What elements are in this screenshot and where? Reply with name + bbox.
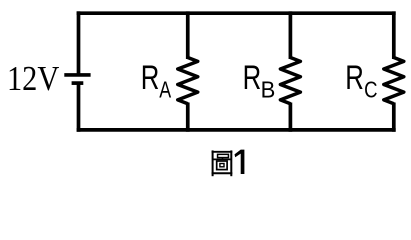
svg-text:12V: 12V: [7, 59, 59, 98]
resistor RC zigzag: [384, 58, 404, 104]
caption numeral 1: [235, 150, 245, 174]
battery V1 long plate (+): [64, 73, 90, 77]
wire bottom rail: [77, 128, 396, 132]
resistor RB zigzag: [280, 58, 300, 104]
label RB: [243, 59, 276, 103]
wire branch B upper: [289, 11, 293, 59]
battery V1 short plate (-): [72, 81, 84, 85]
wire top rail: [77, 11, 396, 15]
svg-text:A: A: [159, 77, 171, 103]
resistor RA zigzag: [178, 58, 198, 104]
svg-text:B: B: [261, 77, 276, 103]
svg-text:R: R: [243, 59, 262, 97]
label RC: [345, 59, 377, 103]
svg-text:R: R: [141, 59, 160, 97]
wire left lower (battery bottom lead): [77, 83, 81, 132]
wire right lower (from RC): [392, 103, 396, 132]
wire branch A upper: [186, 11, 190, 59]
wire branch B lower: [289, 103, 293, 132]
label RA: [141, 59, 172, 103]
wire branch A lower: [186, 103, 190, 132]
svg-text:C: C: [364, 77, 377, 103]
caption glyph 圖 (Figure) drawn as strokes: [212, 150, 233, 176]
wire right upper (to RC): [392, 11, 396, 59]
wire left upper (battery top lead): [77, 11, 81, 75]
svg-text:R: R: [345, 59, 364, 97]
